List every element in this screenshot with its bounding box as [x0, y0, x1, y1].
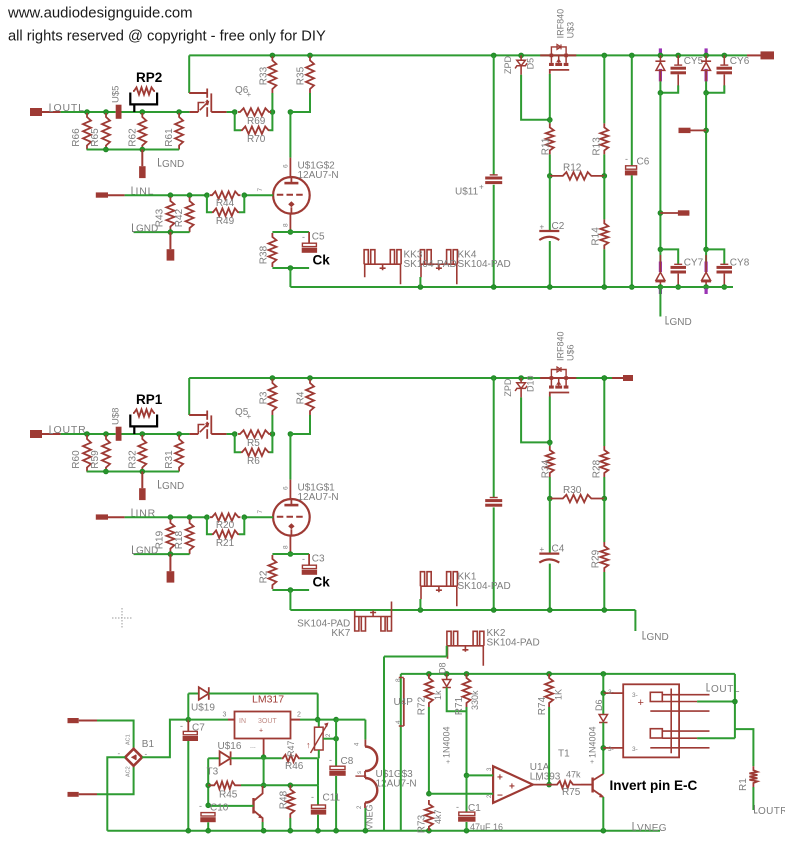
svg-text:-: -: [456, 802, 459, 812]
svg-text:R11: R11: [541, 137, 552, 155]
svg-text:U$11: U$11: [455, 186, 479, 197]
svg-text:R29: R29: [591, 549, 602, 568]
svg-text:CY6: CY6: [730, 56, 750, 67]
svg-text:R62: R62: [128, 128, 139, 147]
svg-text:U$6: U$6: [566, 344, 576, 361]
svg-text:KK7: KK7: [331, 628, 350, 639]
svg-text:330k: 330k: [470, 690, 480, 710]
svg-text:+: +: [638, 697, 644, 709]
svg-text:U$19: U$19: [191, 703, 215, 714]
svg-text:R13: R13: [592, 137, 603, 156]
svg-text:D8: D8: [438, 662, 448, 674]
svg-text:R71: R71: [454, 696, 465, 715]
svg-text:R12: R12: [563, 162, 582, 173]
svg-text:R69: R69: [247, 116, 266, 127]
svg-text:R74: R74: [537, 696, 548, 715]
svg-text:CY7: CY7: [684, 258, 704, 269]
svg-text:R73: R73: [417, 814, 428, 833]
svg-text:VNEG: VNEG: [637, 823, 667, 834]
svg-text:R66: R66: [71, 128, 82, 147]
svg-text:47uF 16: 47uF 16: [470, 822, 503, 832]
svg-text:IRF840: IRF840: [556, 331, 566, 361]
svg-text:C10: C10: [210, 803, 229, 814]
svg-text:IN: IN: [239, 718, 246, 725]
svg-text:R42: R42: [174, 208, 185, 227]
svg-text:D10: D10: [526, 375, 536, 392]
svg-text:D5: D5: [526, 58, 536, 70]
svg-text:6: 6: [283, 486, 290, 490]
svg-text:R61: R61: [164, 128, 175, 147]
svg-text:7: 7: [257, 510, 264, 514]
svg-text:+: +: [259, 728, 263, 735]
svg-text:s: s: [357, 771, 363, 774]
svg-text:R4: R4: [296, 391, 307, 404]
svg-text:8: 8: [283, 545, 290, 549]
svg-text:U$8: U$8: [111, 408, 122, 425]
svg-text:C5: C5: [312, 232, 325, 243]
svg-text:D6: D6: [594, 699, 604, 711]
svg-text:-: -: [302, 232, 305, 242]
svg-text:−: −: [497, 791, 503, 802]
svg-text:T3: T3: [207, 767, 219, 778]
svg-text:R20: R20: [216, 520, 235, 531]
svg-text:+: +: [497, 773, 503, 784]
svg-text:OUTR: OUTR: [758, 806, 785, 817]
svg-text:U4P: U4P: [394, 697, 414, 708]
svg-text:AC1: AC1: [126, 734, 132, 745]
svg-text:U$5: U$5: [111, 86, 122, 103]
svg-text:R33: R33: [259, 66, 270, 85]
svg-text:SK104-PAD: SK104-PAD: [458, 259, 511, 270]
svg-text:C3: C3: [312, 554, 325, 565]
svg-text:R75: R75: [562, 787, 581, 798]
svg-text:R32: R32: [128, 450, 139, 469]
svg-text:ZPD: ZPD: [503, 378, 513, 397]
svg-text:CY5: CY5: [684, 56, 704, 67]
svg-text:GND: GND: [647, 632, 669, 643]
svg-text:www.audiodesignguide.com: www.audiodesignguide.com: [7, 6, 193, 22]
svg-text:R47: R47: [286, 740, 296, 757]
svg-text:R45: R45: [219, 790, 238, 801]
svg-text:IRF840: IRF840: [556, 9, 566, 39]
svg-text:Invert pin E-C: Invert pin E-C: [610, 778, 698, 793]
svg-text:12AU7-N: 12AU7-N: [298, 492, 339, 503]
svg-text:+: +: [540, 545, 545, 554]
svg-text:C4: C4: [552, 544, 565, 555]
svg-text:GND: GND: [162, 159, 184, 170]
svg-text:Ck: Ck: [313, 253, 331, 268]
svg-text:R72: R72: [417, 696, 428, 715]
svg-text:R49: R49: [216, 216, 235, 227]
svg-text:SK104-PAD: SK104-PAD: [458, 581, 511, 592]
svg-text:2: 2: [297, 712, 301, 719]
svg-text:-: -: [329, 755, 332, 765]
svg-text:+: +: [479, 182, 484, 191]
svg-text:1N4004: 1N4004: [588, 726, 598, 758]
svg-text:-: -: [311, 792, 314, 802]
svg-text:GND: GND: [162, 481, 184, 492]
svg-text:3OUT: 3OUT: [258, 718, 277, 725]
svg-text:47k: 47k: [566, 770, 581, 780]
svg-text:ZPD: ZPD: [503, 55, 513, 74]
svg-text:3-: 3-: [632, 746, 638, 753]
svg-text:LM393: LM393: [530, 772, 561, 783]
svg-text:C6: C6: [637, 157, 650, 168]
svg-text:R38: R38: [259, 245, 270, 264]
svg-text:...: ...: [250, 743, 256, 750]
svg-text:all rights reserved @ copyrigh: all rights reserved @ copyright - free o…: [8, 29, 326, 45]
svg-text:-: -: [625, 154, 628, 164]
svg-text:R30: R30: [563, 485, 582, 496]
svg-text:C11: C11: [323, 793, 341, 804]
svg-text:1k: 1k: [433, 690, 443, 700]
svg-text:R21: R21: [216, 538, 235, 549]
svg-text:+: +: [509, 782, 515, 793]
svg-text:AC2: AC2: [126, 766, 132, 777]
svg-text:R70: R70: [247, 134, 266, 145]
svg-text:3-: 3-: [608, 689, 614, 696]
svg-text:Ck: Ck: [313, 575, 331, 590]
svg-text:+: +: [247, 90, 252, 99]
svg-text:RP2: RP2: [136, 70, 162, 85]
svg-text:R6: R6: [247, 456, 260, 467]
svg-text:R18: R18: [174, 530, 185, 549]
svg-text:U$16: U$16: [218, 741, 242, 752]
svg-text:R1: R1: [738, 778, 749, 791]
svg-text:12AU7-N: 12AU7-N: [376, 779, 417, 790]
svg-text:1N4004: 1N4004: [442, 726, 452, 758]
svg-text:LM317: LM317: [252, 694, 284, 706]
svg-text:+: +: [590, 759, 594, 766]
svg-text:8: 8: [395, 678, 402, 682]
svg-text:6: 6: [283, 164, 290, 168]
svg-text:R3: R3: [259, 391, 270, 404]
svg-text:4: 4: [395, 720, 402, 724]
svg-text:SK104-PAD: SK104-PAD: [487, 638, 540, 649]
svg-text:+: +: [446, 759, 450, 766]
svg-text:GND: GND: [670, 317, 692, 328]
svg-text:R34: R34: [541, 459, 552, 478]
svg-text:C2: C2: [552, 221, 565, 232]
svg-text:R48: R48: [279, 790, 290, 809]
svg-text:RP1: RP1: [136, 392, 163, 407]
svg-text:R35: R35: [296, 66, 307, 85]
svg-text:-: -: [180, 721, 183, 731]
svg-text:7: 7: [257, 188, 264, 192]
svg-text:T1: T1: [558, 749, 570, 760]
svg-text:4k7: 4k7: [433, 809, 443, 824]
svg-text:R44: R44: [216, 198, 235, 209]
svg-text:R14: R14: [591, 227, 602, 246]
svg-text:↑: ↑: [306, 740, 311, 750]
svg-text:1K: 1K: [554, 689, 564, 700]
svg-text:U$3: U$3: [566, 22, 576, 39]
svg-text:3-: 3-: [632, 692, 638, 699]
svg-text:R28: R28: [592, 459, 603, 478]
svg-text:-: -: [199, 801, 202, 811]
svg-text:+: +: [247, 412, 252, 421]
svg-text:8: 8: [283, 223, 290, 227]
svg-text:3-: 3-: [608, 746, 614, 753]
svg-text:GND: GND: [136, 546, 158, 557]
svg-text:R2: R2: [259, 570, 270, 583]
svg-text:VNEG: VNEG: [365, 804, 375, 830]
svg-text:-: -: [302, 554, 305, 564]
svg-text:CY8: CY8: [730, 258, 750, 269]
svg-text:R31: R31: [164, 450, 175, 469]
svg-text:3: 3: [223, 712, 227, 719]
svg-text:SK104-PAD: SK104-PAD: [404, 259, 457, 270]
svg-text:R60: R60: [71, 450, 82, 469]
svg-text:12AU7-N: 12AU7-N: [298, 170, 339, 181]
svg-text:R65: R65: [90, 128, 101, 147]
svg-text:C8: C8: [341, 756, 354, 767]
svg-text:+: +: [540, 222, 545, 231]
svg-text:GND: GND: [136, 224, 158, 235]
svg-text:R59: R59: [90, 450, 101, 469]
svg-text:R46: R46: [285, 761, 304, 772]
